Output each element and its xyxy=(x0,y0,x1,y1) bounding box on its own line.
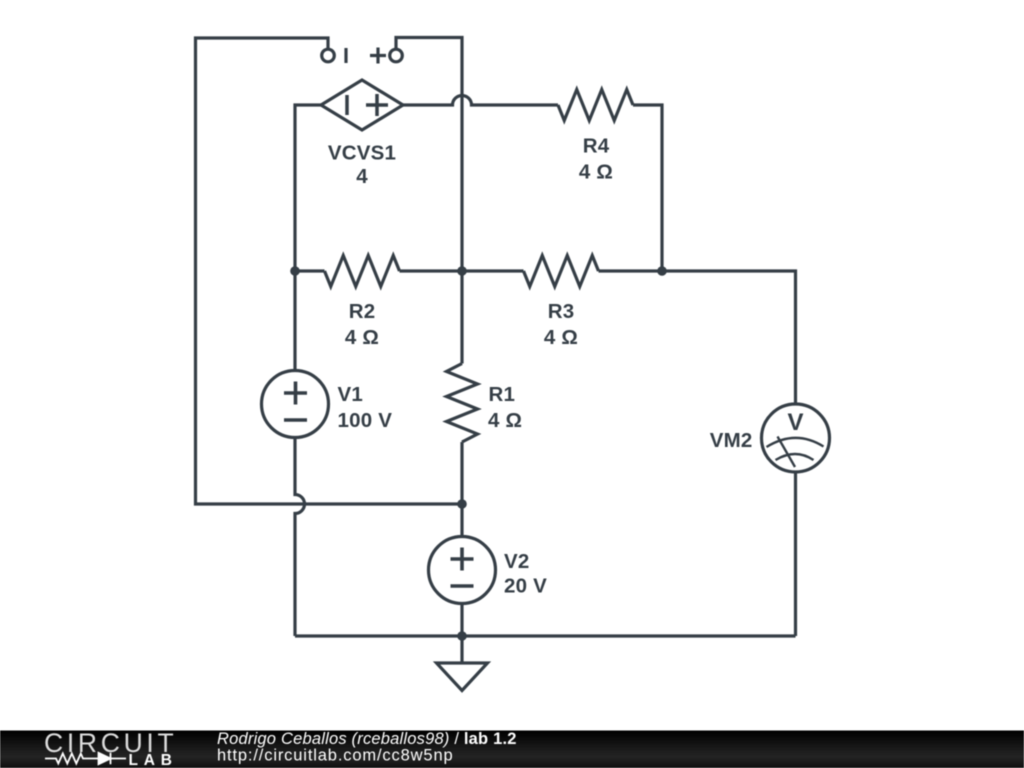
svg-text:R3: R3 xyxy=(548,300,575,323)
wire from V1 bottom with hop over mid horizontal wire down to bottom rail xyxy=(295,438,305,637)
svg-text:V1: V1 xyxy=(338,383,363,406)
svg-text:V2: V2 xyxy=(504,550,529,573)
resistor R4 xyxy=(558,90,633,121)
resistor R1 xyxy=(447,364,478,443)
svg-text:20 V: 20 V xyxy=(504,575,547,598)
svg-text:http://circuitlab.com/cc8w5np: http://circuitlab.com/cc8w5np xyxy=(217,747,454,765)
svg-text:Rodrigo Ceballos (rceballos98): Rodrigo Ceballos (rceballos98) / lab 1.2 xyxy=(217,730,517,748)
svg-text:R1: R1 xyxy=(489,383,516,406)
voltmeter VM2 xyxy=(762,404,830,472)
node junction dot bottom (462,636) xyxy=(457,631,467,641)
terminal circle (control plus) xyxy=(390,49,403,62)
wire from VCVS1 left vertex to left column node xyxy=(295,105,321,271)
wire from right node to voltmeter top xyxy=(662,271,796,404)
ground xyxy=(437,636,488,691)
wire top loop from VCVS1 control minus terminal to far-left rail down to mid horizontal wire xyxy=(196,38,463,504)
wire from VCVS1 control plus terminal over to middle column top xyxy=(396,38,462,272)
wire from V2 bottom to bottom rail node xyxy=(460,604,463,637)
node junction dot middle (462,271) xyxy=(457,266,467,276)
bottom rail wire xyxy=(295,634,796,637)
svg-text:100 V: 100 V xyxy=(338,409,393,432)
wire from left node down to V1 top xyxy=(293,271,296,371)
terminal circle (control minus) xyxy=(322,49,335,62)
svg-text:4: 4 xyxy=(356,165,368,188)
control minus polarity mark xyxy=(344,48,347,63)
voltage source V2 xyxy=(429,537,496,604)
resistor R2 xyxy=(325,256,400,287)
svg-text:R4: R4 xyxy=(583,135,610,158)
svg-text:4 Ω: 4 Ω xyxy=(488,409,522,432)
wire from middle node down to R1 xyxy=(460,271,463,364)
wire from middle node to R3 xyxy=(462,269,524,272)
svg-text:V: V xyxy=(787,409,803,436)
control plus polarity mark xyxy=(370,48,386,64)
svg-text:LAB: LAB xyxy=(129,752,178,768)
svg-text:4 Ω: 4 Ω xyxy=(579,161,613,184)
CircuitLab logo schematic squiggle with resistor and diode xyxy=(45,753,126,764)
wire from R2 to middle node xyxy=(400,269,463,272)
wire with hop from VCVS1 right vertex over middle column to R4 xyxy=(403,96,558,106)
node junction dot (462,504) xyxy=(457,499,467,509)
node junction dot left (295,271) xyxy=(290,266,300,276)
svg-text:VCVS1: VCVS1 xyxy=(328,142,396,165)
wire from R4 right end down to right node xyxy=(633,105,662,271)
wire from voltmeter bottom to bottom rail xyxy=(794,472,797,636)
svg-text:VM2: VM2 xyxy=(710,429,753,452)
voltage source V1 xyxy=(262,371,329,438)
svg-text:4 Ω: 4 Ω xyxy=(345,326,379,349)
node junction dot right (662,271) xyxy=(657,266,667,276)
svg-text:R2: R2 xyxy=(349,300,376,323)
svg-text:4 Ω: 4 Ω xyxy=(544,326,578,349)
wire from R1 bottom through mid node to V2 top xyxy=(460,442,463,537)
op-amp-style diamond VCVS1 dependent source xyxy=(321,80,403,130)
wire from left node to R2 xyxy=(295,269,325,272)
resistor R3 xyxy=(524,256,599,287)
wire from R3 to right node xyxy=(599,269,663,272)
